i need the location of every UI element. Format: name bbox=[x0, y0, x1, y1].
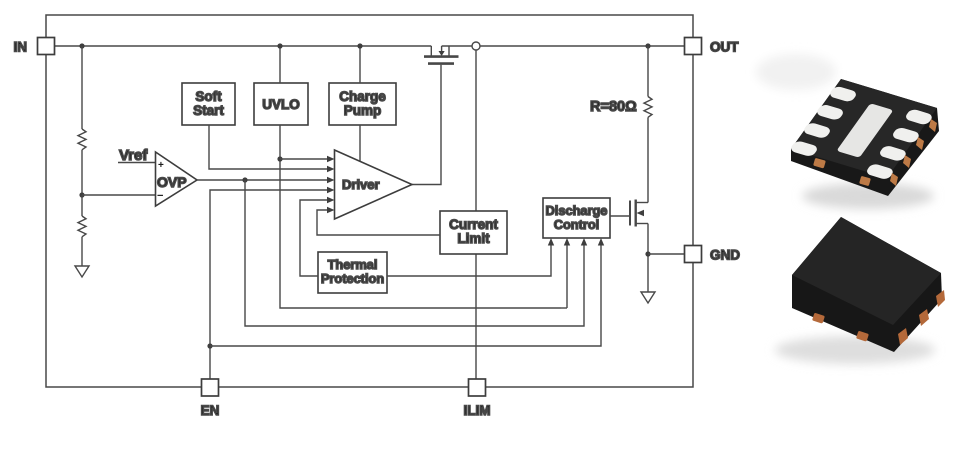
wire top rail right (Q1 to OUT) bbox=[442, 45, 685, 47]
svg-text:UVLO: UVLO bbox=[262, 97, 300, 112]
svg-text:OUT: OUT bbox=[710, 40, 739, 55]
pin EN bbox=[201, 379, 220, 418]
transistor Q1 (pass PMOS) bbox=[424, 46, 459, 64]
svg-text:+: + bbox=[158, 160, 164, 171]
svg-text:Charge: Charge bbox=[339, 89, 386, 104]
pin OUT bbox=[685, 38, 740, 55]
wire node A to OVP inverting input bbox=[82, 194, 155, 196]
svg-text:Control: Control bbox=[554, 217, 600, 232]
wire N1 down to Current Limit bbox=[475, 50, 477, 211]
pin ILIM bbox=[464, 379, 491, 418]
wire Q1 gate to Driver output bbox=[412, 65, 441, 185]
wire OVP branch down to Discharge Control bbox=[245, 180, 584, 326]
svg-text:R=80Ω: R=80Ω bbox=[590, 99, 637, 115]
arrow into driver 1 bbox=[327, 156, 335, 162]
ground Q2 bbox=[641, 292, 655, 303]
wire UVLO down (to Driver input 1 and Discharge route) bbox=[280, 125, 561, 308]
svg-text:Protection: Protection bbox=[321, 271, 384, 286]
package photo bottom (top view DFN-8) bbox=[775, 217, 945, 364]
block Charge Pump bbox=[329, 83, 396, 125]
svg-text:Soft: Soft bbox=[195, 89, 222, 104]
svg-text:EN: EN bbox=[201, 403, 220, 418]
wire Thermal Protection to Discharge Control bbox=[387, 244, 551, 276]
svg-text:Discharge: Discharge bbox=[546, 203, 608, 218]
package photo top (bottom view DFN-8) bbox=[756, 54, 939, 209]
node dot OVP output branch bbox=[242, 177, 247, 182]
svg-text:Start: Start bbox=[193, 103, 224, 118]
svg-text:IN: IN bbox=[14, 40, 28, 55]
resistor R1 bbox=[78, 129, 86, 150]
arrow into driver 6 bbox=[327, 207, 335, 213]
node N1 (switch node circle) bbox=[472, 42, 480, 50]
wire UVLO to top rail bbox=[279, 46, 281, 83]
wire Discharge Control to Q2 gate bbox=[610, 215, 630, 217]
svg-text:GND: GND bbox=[710, 248, 740, 263]
arrow EN branch into Discharge Control bbox=[598, 238, 604, 246]
wire Current Limit to Driver input 6 bbox=[317, 210, 440, 235]
arrow into driver 2 bbox=[327, 166, 335, 172]
svg-text:Current: Current bbox=[449, 217, 498, 232]
svg-text:−: − bbox=[157, 190, 163, 202]
arrow into driver 5 bbox=[327, 197, 335, 203]
node dot EN branch bbox=[207, 343, 212, 348]
IC boundary bbox=[46, 15, 693, 387]
svg-text:ILIM: ILIM bbox=[464, 403, 491, 418]
svg-text:Limit: Limit bbox=[457, 231, 490, 246]
pin GND bbox=[685, 246, 741, 263]
resistor R3 bbox=[644, 97, 652, 118]
node dot UVLO driver branch bbox=[277, 156, 282, 161]
wire EN up to Driver input 4 bbox=[210, 190, 328, 379]
wire Q2 source to GND node bbox=[647, 224, 649, 293]
node dot Charge Pump rail bbox=[357, 43, 362, 48]
wire divider top bbox=[81, 46, 83, 129]
arrow into driver 3 bbox=[327, 177, 335, 183]
wire OVP output to Driver input 3 bbox=[197, 179, 328, 181]
node dot GND bbox=[645, 251, 650, 256]
arrow UVLO to Discharge Control bbox=[566, 244, 568, 308]
wire rail to R3 bbox=[647, 46, 649, 97]
wire GND node to GND pin bbox=[648, 253, 685, 255]
op-amp Driver bbox=[335, 150, 413, 219]
ground divider bbox=[75, 266, 89, 277]
wire R3 to Q2 drain bbox=[647, 117, 649, 202]
arrow Thermal into Discharge Control bbox=[548, 238, 554, 246]
wire Charge Pump to Driver top bbox=[359, 125, 361, 162]
block Current Limit bbox=[440, 211, 507, 254]
node A dot bbox=[79, 192, 84, 197]
wire EN branch to Discharge Control bbox=[210, 244, 601, 346]
wire Soft Start to Driver input 2 bbox=[209, 125, 328, 169]
arrow into driver 4 bbox=[327, 187, 335, 193]
svg-text:Pump: Pump bbox=[344, 103, 382, 118]
block Thermal Protection bbox=[318, 252, 387, 293]
block Soft Start bbox=[182, 83, 235, 125]
wire Thermal Protection to Driver input 5 bbox=[300, 200, 328, 276]
wire Vref to OVP non-inverting input bbox=[118, 162, 155, 164]
svg-text:Vref: Vref bbox=[119, 147, 148, 164]
node dot divider top bbox=[79, 43, 84, 48]
block UVLO bbox=[254, 83, 308, 125]
node dot R3 rail bbox=[645, 43, 650, 48]
wire Current Limit down to ILIM pin bbox=[475, 254, 477, 379]
arrow OVP branch into Discharge Control bbox=[581, 238, 587, 246]
svg-text:Driver: Driver bbox=[342, 177, 380, 192]
node dot UVLO rail bbox=[277, 43, 282, 48]
pin IN bbox=[14, 38, 55, 55]
wire Charge Pump to top rail bbox=[359, 46, 361, 83]
op-amp OVP bbox=[156, 152, 198, 206]
transistor Q2 (discharge NMOS) bbox=[630, 200, 648, 227]
block Discharge Control bbox=[543, 198, 610, 238]
wire R1 to node A bbox=[81, 150, 83, 195]
svg-text:Thermal: Thermal bbox=[328, 257, 378, 272]
resistor R2 bbox=[78, 195, 86, 266]
wire UVLO branch to Driver input 1 bbox=[280, 158, 328, 160]
wire top rail left (IN to Q1 source) bbox=[55, 45, 432, 47]
svg-text:OVP: OVP bbox=[157, 174, 187, 190]
